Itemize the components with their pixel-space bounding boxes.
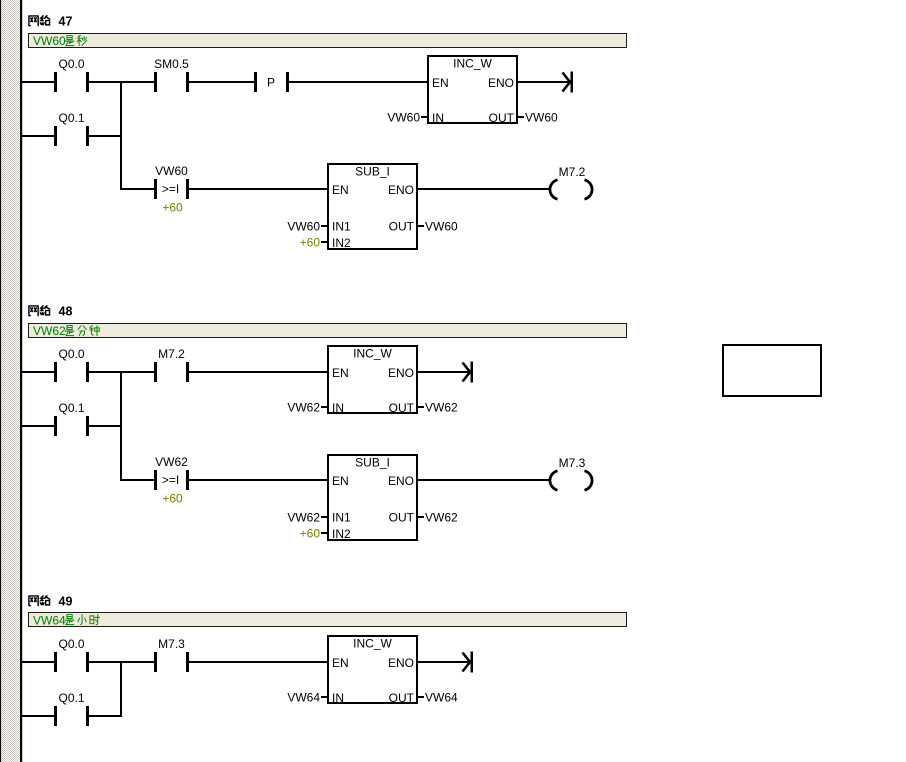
svg-text:+60: +60 [162, 492, 183, 506]
coil M7.2 (net47 output) [550, 165, 592, 199]
wire: INC_W ENO to arrow (net49) [418, 661, 470, 663]
svg-text:ENO: ENO [388, 183, 414, 197]
wire: rail to contact Q0.1 (net49 rung2) [21, 715, 54, 717]
svg-text:VW62: VW62 [155, 455, 188, 469]
wire: INC_W ENO to arrow (net47) [518, 81, 570, 83]
contact P (positive edge, net47) [254, 72, 289, 92]
network 49 comment box [29, 613, 627, 627]
svg-text:VW64: VW64 [425, 691, 458, 705]
function block INC_W (net48) [328, 346, 417, 415]
wire: M7.2 to INC_W EN (net48) [189, 371, 327, 373]
svg-text:ENO: ENO [488, 76, 514, 90]
svg-text:49: 49 [59, 595, 73, 609]
svg-text:48: 48 [59, 305, 73, 319]
wire: rail to contact Q0.0 (net49 rung1) [21, 661, 54, 663]
svg-text:Q0.1: Q0.1 [58, 691, 84, 705]
svg-text:OUT: OUT [389, 220, 415, 234]
svg-text:INC_W: INC_W [353, 347, 392, 361]
svg-text:VW62: VW62 [425, 511, 458, 525]
network 48 comment box [29, 324, 627, 338]
pin OUT stub + operand VW60 (net47 SUB_I) [418, 220, 458, 234]
svg-text:EN: EN [332, 474, 349, 488]
svg-text:M7.3: M7.3 [559, 456, 586, 470]
open arrowhead terminator (net47) [563, 72, 574, 93]
wire: Q0.0 to M7.3 through junction (net49) [89, 661, 154, 663]
svg-text:SM0.5: SM0.5 [154, 57, 189, 71]
contact Q0.1 (net48) [54, 401, 89, 436]
wire: rail to contact Q0.1 (net47 rung2) [21, 135, 54, 137]
svg-text:ENO: ENO [388, 656, 414, 670]
function block INC_W (net47) [428, 56, 517, 125]
contact Q0.1 (net47) [54, 111, 89, 146]
svg-text:M7.2: M7.2 [158, 347, 185, 361]
contact M7.2 (net48) [154, 347, 189, 382]
svg-text:VW62: VW62 [33, 324, 66, 338]
svg-text:VW64: VW64 [33, 614, 66, 628]
svg-text:VW60: VW60 [425, 220, 458, 234]
svg-text:M7.3: M7.3 [158, 637, 185, 651]
junction: vertical branch line net48 [120, 371, 122, 481]
svg-text:VW60: VW60 [155, 164, 188, 178]
pin OUT stub + operand VW62 (net48 SUB_I) [418, 511, 458, 525]
function block SUB_I (net47) [328, 164, 417, 250]
wire: Q0.0 to M7.2 through junction [89, 371, 154, 373]
svg-text:VW62: VW62 [425, 401, 458, 415]
svg-text:VW60: VW60 [525, 111, 558, 125]
pin IN stub + operand VW62 (net48 INC_W) [287, 401, 327, 415]
left gutter (dithered margin strip) [1, 0, 20, 762]
svg-text:OUT: OUT [389, 401, 415, 415]
svg-text:>=I: >=I [162, 473, 179, 487]
junction: vertical branch line net47 [120, 81, 122, 190]
svg-text:OUT: OUT [389, 691, 415, 705]
network 48 header [29, 305, 73, 319]
contact SM0.5 (net47) [154, 57, 189, 92]
svg-text:M7.2: M7.2 [559, 165, 586, 179]
compare contact VW60 >= +60 (net47) [154, 164, 189, 199]
floating empty selection rectangle [723, 345, 821, 396]
svg-text:IN: IN [332, 401, 344, 415]
svg-text:VW64: VW64 [287, 691, 320, 705]
function block SUB_I (net48) [328, 455, 417, 541]
wire: rail to contact Q0.0 (net47 rung1) [21, 81, 54, 83]
svg-text:VW62: VW62 [287, 401, 320, 415]
svg-text:EN: EN [332, 656, 349, 670]
wire: rail to contact Q0.1 (net48 rung2) [21, 425, 54, 427]
svg-text:IN1: IN1 [332, 220, 351, 234]
svg-text:SUB_I: SUB_I [355, 456, 390, 470]
wire: SUB_I ENO to coil M7.2 [418, 188, 549, 190]
pin IN stub + operand VW64 (net49 INC_W) [287, 691, 327, 705]
left gutter edge line [0, 0, 1, 762]
svg-text:Q0.1: Q0.1 [58, 111, 84, 125]
wire: Q0.1 to junction (net48) [89, 425, 122, 427]
contact Q0.0 (net47) [54, 57, 89, 92]
svg-text:P: P [267, 76, 275, 90]
svg-text:VW60: VW60 [287, 220, 320, 234]
svg-text:VW60: VW60 [387, 111, 420, 125]
network 47 comment text VW60是秒 [33, 34, 87, 48]
svg-text:>=I: >=I [162, 182, 179, 196]
svg-text:Q0.0: Q0.0 [58, 637, 84, 651]
svg-text:Q0.1: Q0.1 [58, 401, 84, 415]
wire: SM0.5 to P contact [189, 81, 254, 83]
pin IN stub + operand VW60 (net47 INC_W) [387, 111, 427, 125]
contact M7.3 (net49) [154, 637, 189, 672]
svg-text:INC_W: INC_W [453, 57, 492, 71]
svg-text:IN2: IN2 [332, 527, 351, 541]
wire: junction to compare contact (net47 branch) [122, 188, 154, 190]
svg-text:47: 47 [59, 15, 73, 29]
contact Q0.1 (net49) [54, 691, 89, 726]
svg-text:ENO: ENO [388, 366, 414, 380]
compare contact VW62 >= +60 (net48) [154, 455, 189, 490]
open arrowhead terminator (net49) [463, 652, 474, 673]
network 49 header [29, 595, 73, 609]
svg-text:+60: +60 [300, 236, 321, 250]
wire: Q0.1 to junction [89, 135, 122, 137]
left power rail [20, 0, 22, 762]
wire: INC_W ENO to arrow (net48) [418, 371, 470, 373]
wire: rail to contact Q0.0 (net48 rung1) [21, 371, 54, 373]
pin IN1 stub + operand VW62 (net48 SUB_I) [287, 511, 327, 525]
svg-text:EN: EN [332, 183, 349, 197]
wire: Q0.1 to junction (net49) [89, 715, 122, 717]
wire: compare contact to SUB_I EN (net48) [189, 479, 327, 481]
pin OUT stub + operand VW60 (net47 INC_W) [518, 111, 558, 125]
svg-text:IN: IN [432, 111, 444, 125]
svg-text:+60: +60 [162, 201, 183, 215]
pin IN1 stub + operand VW60 (net47 SUB_I) [287, 220, 327, 234]
svg-text:INC_W: INC_W [353, 637, 392, 651]
network 47 header [29, 15, 73, 29]
wire: compare contact to SUB_I EN [189, 188, 327, 190]
wire: P contact to INC_W EN [289, 81, 427, 83]
svg-text:IN: IN [332, 691, 344, 705]
network 49 comment text VW64是小时 [33, 614, 99, 628]
pin OUT stub + operand VW62 (net48 INC_W) [418, 401, 458, 415]
pin IN2 stub + operand +60 (net47 SUB_I) [300, 236, 327, 250]
svg-text:Q0.0: Q0.0 [58, 57, 84, 71]
coil M7.3 (net48 output) [550, 456, 592, 490]
svg-text:IN2: IN2 [332, 236, 351, 250]
network 47 comment box [29, 34, 627, 48]
svg-text:SUB_I: SUB_I [355, 165, 390, 179]
wire: Q0.0 to SM0.5 through junction [89, 81, 154, 83]
wire: M7.3 to INC_W EN (net49) [189, 661, 327, 663]
svg-text:IN1: IN1 [332, 511, 351, 525]
svg-text:OUT: OUT [489, 111, 515, 125]
svg-text:ENO: ENO [388, 474, 414, 488]
svg-text:OUT: OUT [389, 511, 415, 525]
network 48 comment text VW62是分钟 [33, 324, 99, 338]
contact Q0.0 (net48) [54, 347, 89, 382]
pin IN2 stub + operand +60 (net48 SUB_I) [300, 527, 327, 541]
wire: junction to compare contact (net48 branch) [122, 479, 154, 481]
svg-text:EN: EN [332, 366, 349, 380]
junction: vertical branch line net49 [120, 661, 122, 717]
svg-text:VW62: VW62 [287, 511, 320, 525]
open arrowhead terminator (net48) [463, 362, 474, 383]
svg-text:+60: +60 [300, 527, 321, 541]
svg-text:Q0.0: Q0.0 [58, 347, 84, 361]
pin OUT stub + operand VW64 (net49 INC_W) [418, 691, 458, 705]
function block INC_W (net49) [328, 636, 417, 705]
contact Q0.0 (net49) [54, 637, 89, 672]
svg-text:EN: EN [432, 76, 449, 90]
wire: SUB_I ENO to coil M7.3 (net48) [418, 479, 549, 481]
svg-text:VW60: VW60 [33, 34, 66, 48]
